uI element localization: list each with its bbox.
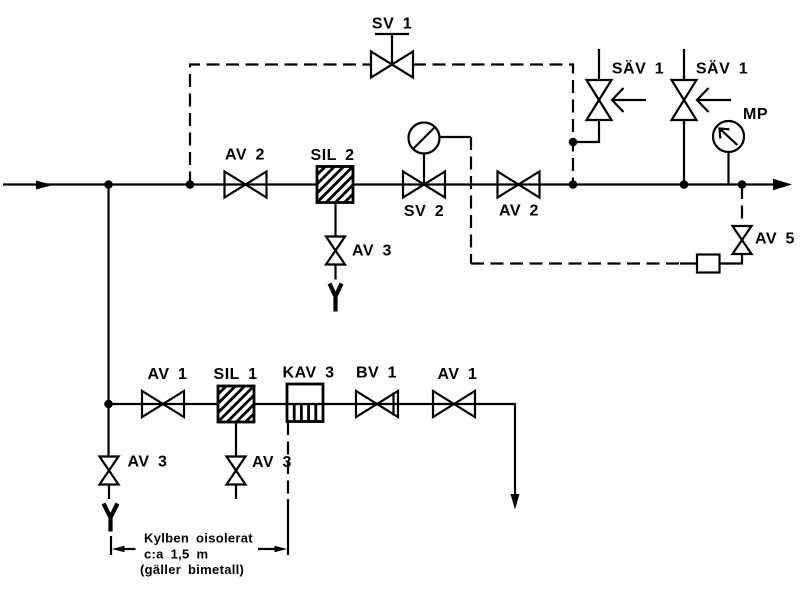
svg-text:AV 3: AV 3 [128, 454, 168, 471]
svg-text:AV 1: AV 1 [148, 366, 188, 383]
svg-text:SÄV 1: SÄV 1 [696, 60, 748, 78]
svg-text:SV 1: SV 1 [372, 16, 412, 33]
svg-text:KAV 3: KAV 3 [283, 365, 335, 382]
svg-text:SIL 1: SIL 1 [214, 366, 258, 383]
svg-text:MP: MP [743, 106, 768, 123]
svg-text:AV 2: AV 2 [499, 203, 539, 220]
svg-text:AV 2: AV 2 [225, 147, 265, 164]
svg-text:Kylben oisolerat: Kylben oisolerat [144, 531, 253, 546]
svg-text:AV 3: AV 3 [252, 454, 292, 471]
svg-text:(gäller bimetall): (gäller bimetall) [140, 562, 244, 577]
svg-text:SÄV 1: SÄV 1 [612, 60, 664, 78]
svg-text:BV 1: BV 1 [356, 365, 397, 382]
svg-text:AV 3: AV 3 [352, 243, 392, 260]
svg-text:c:a 1,5 m: c:a 1,5 m [144, 547, 208, 562]
svg-text:AV 5: AV 5 [755, 231, 795, 248]
svg-text:SIL 2: SIL 2 [311, 147, 355, 164]
svg-text:SV 2: SV 2 [404, 203, 444, 220]
svg-text:AV 1: AV 1 [438, 366, 478, 383]
